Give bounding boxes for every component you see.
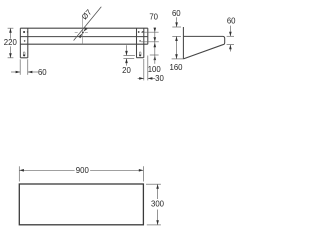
side dimension 60 upper line [176,17,178,27]
dimension 220 down arrowhead [9,53,12,58]
dimension 30 right arrow line [148,77,155,79]
right bracket bottom slot outline [139,52,141,56]
right bracket bottom slot dot [139,54,141,56]
side dimension 60 (top left) upper tick [172,26,181,28]
svg-text:900: 900 [76,166,90,175]
hole row2 tick (right) [141,41,159,43]
dimension 20 top tick [123,55,134,57]
svg-text:300: 300 [151,200,165,209]
right bracket bottom edge [137,57,144,59]
side dimension 60 (right) lower tick [227,44,234,46]
dimension 100 top up arrowhead [154,43,157,48]
dimension 70 lower down arrowhead [154,37,157,42]
dimension 20 up arrowhead [125,59,128,64]
side dimension 60 (right) upper tick [227,35,234,37]
dimension 300 line lower segment [157,210,159,225]
hole row1 tick (right) [141,31,159,33]
side dimension 60 (right) up arrowhead [229,45,232,50]
hole centermark left dash [75,32,78,34]
front view shelf left end / left bracket left edge [19,28,21,58]
dimension 900 left arrowhead [19,169,24,172]
dimension 30 left arrowhead [139,77,144,80]
dimension 220 line lower segment [9,46,11,57]
side dimension 160 down arrowhead [175,54,178,59]
dimension 100 tail line [154,55,156,64]
left bracket bottom slot dot [23,54,25,56]
svg-text:20: 20 [122,66,131,75]
Ø7 lower arrowhead (points up-right at hole) [78,33,82,38]
dimension 300 line upper segment [157,184,159,199]
side dimension 60 down arrowhead [175,22,178,27]
left bracket right edge [27,28,29,58]
svg-text:70: 70 [149,12,158,21]
front view shelf top surface line [20,36,147,38]
svg-text:100: 100 [148,65,162,74]
svg-text:220: 220 [4,38,18,47]
left bracket hole row1 right dot [27,31,28,32]
dimension 30 left arrow line [138,77,144,79]
dimension 220 bottom tick [8,57,14,59]
dimension 220 up arrowhead [9,28,12,33]
dimension 60 right arrowhead [28,71,33,74]
hole centerline (vertical) for Ø7 callout [82,16,84,44]
right bracket hole row1 right dot [142,31,144,33]
Ø7 upper arrowhead (points down-left at hole) [83,27,87,32]
right bracket right edge [143,28,145,58]
hole centermark right dash [85,32,88,34]
dimension 220 top tick [8,27,14,29]
left bracket hole row2 dot [24,40,26,42]
dimension 20 upper line [126,45,128,55]
dimension 20 bottom tick [123,58,134,60]
front view shelf apron bottom edge [20,43,147,45]
hole row3 tick (right) [150,54,159,56]
svg-text:160: 160 [169,63,183,72]
left bracket bottom edge [20,57,27,59]
front view shelf upstand top edge [20,27,147,29]
plan view shelf outline rectangle [19,184,143,225]
svg-text:60: 60 [172,9,181,18]
side dimension 60 (right) upper line [229,26,231,37]
side dimension 160 bottom tick [172,58,184,60]
dimension 300 top extension line [146,183,161,185]
side dimension 60 (right) down arrowhead [229,32,232,37]
dimension 100 below-tick up arrowhead [154,56,157,61]
dimension 60 left arrow line [11,71,20,73]
svg-text:60: 60 [227,17,236,26]
dimension 220 line upper segment [9,28,11,39]
left bracket hole row1 left dot [23,31,25,33]
left bracket bottom slot outline [23,52,25,56]
Ø7 hole dot on rail [82,32,84,34]
dimension 60 right extension line [27,59,29,75]
dimension 900 line left segment [19,169,74,171]
dimension 70 upper down arrowhead [154,28,157,33]
right bracket left edge [136,28,138,58]
dimension 300 down arrowhead [156,220,159,225]
svg-text:30: 30 [155,74,164,83]
right bracket hole row1 left dot [138,31,140,33]
right bracket hole row2 dot [139,40,141,42]
front view shelf right end edge [147,28,149,44]
dimension 20 down arrowhead [125,51,128,56]
dimension 30 left extension line [143,59,145,80]
Ø7 leader line [74,7,102,41]
dimension 900 right arrowhead [139,169,144,172]
side view shelf profile (top, front edge, sloped underside) [183,36,224,59]
side dimension 60 (right) lower line [229,45,231,52]
side view bracket wall plate [182,27,184,59]
dimension 900 line right segment [90,169,143,171]
dimension 900 right extension line [142,166,144,181]
side dimension 160 up arrowhead [175,36,178,41]
dimension 20 lower line [126,59,128,66]
dimension 60 right arrow line [28,71,38,73]
dimension 60 left arrowhead [16,71,21,74]
dimension 30 right arrowhead [148,77,153,80]
dimension 900 left extension line [18,166,20,181]
dimension 60 (left bracket width) left extension line [19,59,21,75]
dimension 300 up arrowhead [156,184,159,189]
side dimension 160 line [176,36,178,59]
dimension 300 bottom extension line [147,224,161,226]
dimension 30 right extension line [147,56,149,81]
svg-text:60: 60 [38,68,47,77]
dimension 70/100 stack line [154,28,156,55]
side dimension 60 (top left) lower tick [172,35,181,37]
